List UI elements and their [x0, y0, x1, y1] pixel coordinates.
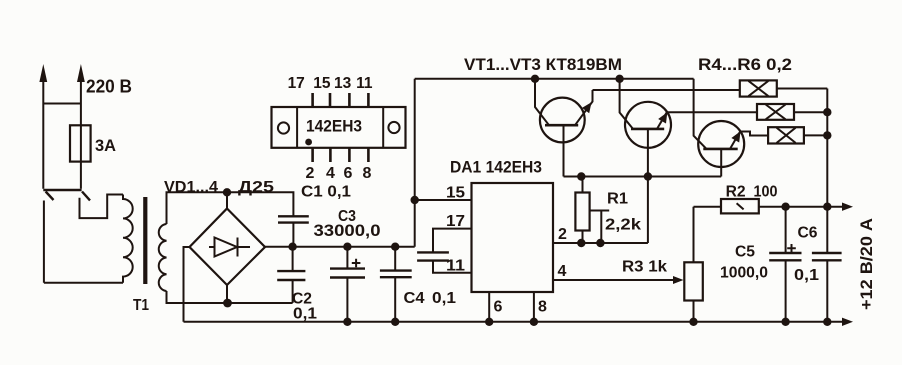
wire left pole down: [43, 201, 45, 283]
diode symbol inside bridge: [209, 238, 250, 257]
wire right vertical output: [826, 89, 828, 322]
capacitor C5 electrolytic: [769, 207, 801, 322]
node rail VT1 dot: [531, 75, 539, 83]
svg-text:8: 8: [363, 165, 372, 182]
wire primary bottom lead: [44, 282, 123, 284]
node out C6 dot: [823, 203, 831, 211]
fuse FU 3A: [70, 125, 91, 161]
transistor VT1: [535, 79, 593, 177]
svg-text:C1 0,1: C1 0,1: [301, 184, 351, 201]
resistor R6: [768, 127, 827, 143]
node base VT2 dot: [644, 172, 652, 180]
bridge left lead down to minus rail: [184, 247, 190, 322]
svg-text:6: 6: [494, 299, 503, 316]
capacitor C6: [812, 253, 842, 260]
package top pins: [313, 93, 369, 107]
node bus C4 dot: [391, 243, 399, 251]
svg-text:11: 11: [356, 75, 373, 92]
wire secondary top to bridge AC1: [167, 192, 228, 224]
svg-text:0,1: 0,1: [432, 290, 456, 307]
wire base bus VT1-VT3: [564, 176, 722, 178]
svg-text:C6: C6: [798, 225, 818, 242]
wire DA1 pin2 to bases: [553, 242, 648, 244]
wire link between mains lines: [43, 103, 81, 105]
transistor VT2: [620, 79, 671, 243]
node base R1 dot: [577, 172, 585, 180]
wire DA1 pin4 wiper: [553, 279, 675, 281]
svg-text:15: 15: [313, 75, 331, 92]
node AC1 dot: [223, 188, 231, 196]
resistor R5: [757, 104, 827, 120]
node pin2 R1 dot: [577, 239, 585, 247]
output arrow top: [842, 203, 853, 211]
transformer T1 secondary winding: [159, 224, 167, 291]
svg-text:R2: R2: [726, 184, 746, 201]
wire VT3 emitter to R6: [740, 132, 768, 136]
DA1 pin 8 stub: [533, 292, 535, 322]
wire secondary bottom to bridge AC2: [167, 291, 293, 303]
node rail pin8 dot: [530, 318, 538, 326]
svg-text:4: 4: [558, 263, 567, 280]
wire pin 15: [415, 199, 472, 201]
svg-text:DA1 142ЕН3: DA1 142ЕН3: [450, 158, 542, 177]
svg-text:33000,0: 33000,0: [314, 221, 381, 240]
node rail VT2 dot: [615, 75, 623, 83]
svg-text:+12 В/20 А: +12 В/20 А: [858, 218, 876, 310]
svg-text:2: 2: [558, 226, 567, 243]
wiper arrow into R3: [673, 276, 684, 284]
node rail C5 dot: [781, 318, 789, 326]
node rail R3 dot: [689, 318, 697, 326]
node R5 out dot: [823, 108, 831, 116]
mains right line with up arrow: [77, 64, 85, 189]
svg-text:11: 11: [446, 258, 465, 275]
IC package 142EN3 outline: [272, 107, 406, 148]
capacitor C3 electrolytic: [330, 247, 365, 322]
svg-text:15: 15: [446, 185, 465, 202]
resistor R1: [575, 177, 609, 244]
svg-text:1000,0: 1000,0: [720, 265, 768, 282]
svg-text:17: 17: [446, 213, 465, 230]
svg-text:R3 1k: R3 1k: [622, 259, 667, 276]
svg-text:0,1: 0,1: [293, 306, 317, 323]
resistor R3: [684, 207, 703, 322]
node AC2 dot: [223, 299, 232, 308]
wire plus bus from bridge to trunk: [265, 246, 415, 248]
svg-text:C5: C5: [735, 244, 755, 261]
mains left line with up arrow: [39, 64, 47, 189]
svg-text:0,1: 0,1: [794, 267, 819, 284]
svg-text:R4...R6 0,2: R4...R6 0,2: [698, 56, 792, 74]
output arrow bottom: [842, 318, 853, 326]
svg-text:17: 17: [288, 75, 305, 92]
node out C5 dot: [781, 203, 789, 211]
wire trunk up to top rail: [414, 79, 416, 247]
transformer T1 core: [143, 197, 147, 284]
wire VT1 emitter to R4: [593, 89, 740, 91]
svg-text:8: 8: [538, 299, 547, 316]
svg-text:3А: 3А: [95, 136, 116, 155]
wire right pole step to primary top: [80, 195, 124, 219]
package bottom pins: [313, 148, 369, 162]
bridge bottom lead: [226, 285, 228, 303]
wire minus rail bottom: [184, 321, 844, 323]
node bus C1C2 dot: [288, 243, 296, 251]
node pin15 trunk dot: [411, 196, 419, 204]
bridge top lead: [226, 192, 228, 208]
capacitor C1: [227, 192, 309, 246]
switch SA (double pole): [43, 190, 90, 200]
node R6 out dot: [823, 131, 831, 139]
svg-text:220 В: 220 В: [86, 77, 132, 97]
node bus C3 dot: [343, 243, 351, 251]
svg-text:R1: R1: [607, 191, 628, 208]
resistor R2: [694, 199, 844, 213]
wire top rail: [415, 78, 694, 80]
node rail C4 dot: [391, 318, 399, 326]
DA1 pin 6 stub: [488, 292, 490, 322]
node rail pin6 dot: [485, 318, 493, 326]
svg-text:C4: C4: [404, 290, 425, 307]
node pin2 tap dot: [596, 239, 604, 247]
transformer T1 primary winding: [123, 195, 133, 283]
svg-text:6: 6: [344, 165, 353, 182]
svg-text:VT1...VT3 КТ819ВМ: VT1...VT3 КТ819ВМ: [464, 56, 622, 74]
svg-text:2: 2: [306, 165, 315, 182]
node rail end dot: [823, 318, 831, 326]
resistor R4: [740, 80, 828, 96]
op-amp regulator DA1 box: [472, 183, 554, 292]
svg-text:T1: T1: [133, 297, 149, 314]
svg-text:13: 13: [334, 75, 352, 92]
capacitor C4: [380, 247, 412, 322]
wire VT2 emitter to R5: [667, 111, 757, 113]
svg-text:VD1...4: VD1...4: [164, 179, 218, 196]
svg-text:100: 100: [754, 184, 778, 201]
svg-text:4: 4: [326, 165, 335, 182]
svg-text:Д25: Д25: [238, 179, 274, 196]
svg-text:2,2k: 2,2k: [605, 217, 641, 234]
svg-text:142ЕН3: 142ЕН3: [306, 117, 362, 136]
capacitor C2: [277, 247, 305, 303]
bridge rectifier VD1...4 diamond: [190, 209, 266, 286]
transistor VT3: [694, 79, 745, 177]
node rail C3 dot: [343, 318, 351, 326]
capacitor C17-11 between pins 17 and 11: [417, 229, 471, 273]
